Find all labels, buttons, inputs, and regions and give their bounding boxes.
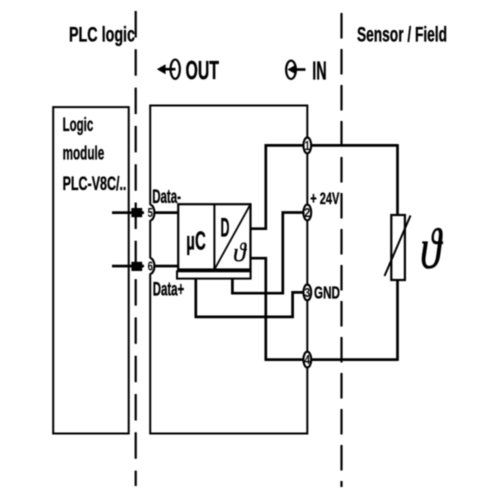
terminal 2: [303, 205, 311, 221]
logic module box: [53, 107, 129, 433]
wire D-converter to terminal1 and sensor top: [251, 145, 398, 228]
svg-text:3: 3: [304, 286, 310, 300]
svg-text:GND: GND: [314, 283, 340, 303]
svg-text:ϑ: ϑ: [233, 238, 247, 267]
svg-text:module: module: [63, 142, 105, 164]
svg-text:Data+: Data+: [153, 279, 185, 300]
svg-text:+ 24V: + 24V: [310, 189, 340, 208]
label Logic module PLC-V8C/..: [63, 114, 127, 195]
wire sensor vertical bottom: [396, 279, 399, 361]
wire D-converter to terminal4 and sensor bottom: [251, 258, 398, 359]
terminal 3: [303, 285, 311, 301]
diagonal of D/theta converter cell: [214, 204, 250, 269]
terminal 4: [303, 352, 311, 368]
wire terminal5 to logic module (Data-): [112, 211, 144, 214]
svg-text:D: D: [221, 211, 230, 242]
svg-text:Sensor / Field: Sensor / Field: [357, 24, 447, 47]
svg-text:IN: IN: [312, 56, 326, 86]
svg-text:ϑ: ϑ: [420, 217, 444, 280]
dashed separator line right (Sensor / Field boundary): [340, 13, 342, 487]
wire terminal5 to uC block: [155, 211, 179, 214]
svg-text:1: 1: [305, 139, 310, 153]
big theta symbol (temperature): [420, 217, 444, 280]
svg-text:4: 4: [304, 353, 310, 367]
svg-text:5: 5: [148, 206, 153, 220]
dashed separator line left (PLC logic / isolator boundary): [135, 11, 137, 486]
wire bar to terminal3 (GND): [196, 278, 304, 317]
svg-text:OUT: OUT: [186, 57, 220, 85]
temperature sensor RTD body: [391, 215, 405, 280]
sensor diagonal stroke: [385, 216, 411, 277]
terminal 6 (half-circle bump): [146, 258, 155, 274]
terminal 1: [303, 138, 311, 154]
svg-text:Logic: Logic: [63, 114, 94, 136]
uC / D converter block: [178, 204, 250, 269]
svg-text:PLC logic: PLC logic: [69, 24, 135, 47]
black connector block on Data- wire: [131, 208, 142, 217]
wire terminal6 to uC block: [155, 265, 179, 268]
wire terminal6 to logic module (Data+): [112, 265, 144, 268]
wire sensor vertical top: [396, 144, 399, 216]
wire bar to terminal2 (+24V): [232, 213, 303, 294]
svg-text:µC: µC: [186, 227, 206, 255]
svg-text:6: 6: [148, 260, 153, 274]
terminal 5 (half-circle bump): [146, 205, 155, 221]
isolator main box: [150, 106, 307, 434]
terminal bar under block: [177, 271, 251, 278]
IN icon (circle with arrow entering): [286, 61, 305, 79]
OUT icon (circle with left arrow): [157, 60, 180, 79]
svg-text:PLC-V8C/..: PLC-V8C/..: [63, 173, 127, 195]
black connector block on Data+ wire: [131, 262, 142, 271]
svg-text:Data-: Data-: [152, 187, 181, 208]
divider uC|D: [213, 204, 215, 269]
